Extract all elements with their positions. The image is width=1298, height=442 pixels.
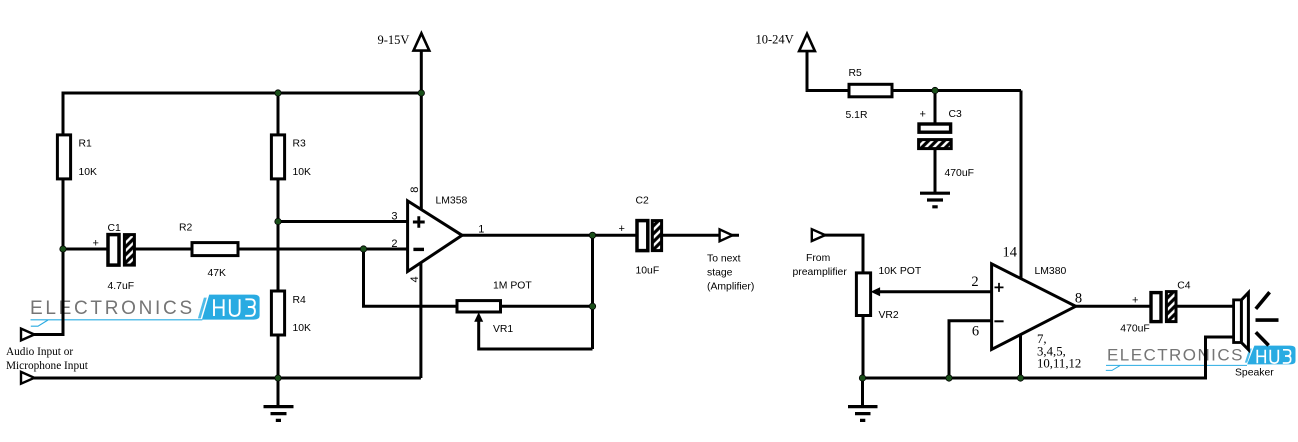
svg-text:2: 2 bbox=[971, 274, 978, 290]
svg-text:Audio Input or: Audio Input or bbox=[6, 346, 73, 358]
svg-text:+: + bbox=[1132, 294, 1138, 306]
svg-text:8: 8 bbox=[1075, 290, 1082, 306]
junction power rail left bbox=[418, 90, 424, 96]
wire pin 14 bbox=[1020, 91, 1023, 279]
op-amp U2 minus input mark bbox=[994, 320, 1003, 322]
capacitor C1 plate positive bbox=[108, 235, 119, 266]
wire C2 to arrow bbox=[661, 234, 740, 237]
wire wiper VR2 to pin2 bbox=[879, 290, 992, 293]
svg-text:Microphone Input: Microphone Input bbox=[6, 360, 89, 372]
junction feedback pin2 bbox=[360, 246, 366, 252]
op-amp U1 LM358 triangle bbox=[408, 201, 463, 272]
logo2 underline bbox=[1106, 364, 1247, 366]
logo underline notch bbox=[31, 320, 48, 326]
power arrow 9-15V bbox=[414, 33, 430, 50]
wire bottom rail left bbox=[34, 377, 421, 380]
wire C1 to pin2 bbox=[133, 248, 408, 251]
wire power stem / pin 8 bbox=[420, 49, 423, 210]
WIRES-RIGHT bbox=[807, 50, 1234, 406]
logo hub box bbox=[202, 295, 260, 320]
capacitor C4 plate positive bbox=[1151, 293, 1161, 322]
svg-text:From: From bbox=[806, 253, 830, 264]
junction VR2 ground bbox=[859, 375, 865, 381]
svg-text:preamplifier: preamplifier bbox=[793, 267, 848, 278]
svg-text:+: + bbox=[93, 237, 99, 249]
svg-text:LM358: LM358 bbox=[436, 196, 468, 207]
svg-text:R1: R1 bbox=[79, 139, 93, 150]
wire ground stem R4 bbox=[277, 378, 280, 406]
svg-text:VR1: VR1 bbox=[493, 324, 513, 335]
op-amp U1 plus input mark bbox=[413, 216, 425, 227]
ground symbol under C3 bbox=[920, 193, 950, 207]
wire left rail bbox=[62, 92, 65, 335]
capacitor C3 plate negative bbox=[919, 140, 952, 149]
svg-text:(Amplifier): (Amplifier) bbox=[707, 281, 754, 292]
svg-text:+: + bbox=[619, 223, 625, 235]
potentiometer VR1 body bbox=[457, 301, 501, 312]
junction pin6 rail bbox=[946, 375, 952, 381]
svg-text:R3: R3 bbox=[293, 139, 307, 150]
wire pin 3 bbox=[278, 220, 408, 223]
svg-text:4: 4 bbox=[409, 276, 421, 282]
power arrow 10-24V bbox=[799, 34, 815, 51]
wire output LM358 bbox=[462, 234, 637, 237]
wire C1 left segment bbox=[63, 248, 110, 251]
svg-text:R2: R2 bbox=[179, 223, 193, 234]
potentiometer VR1 wiper arrow bbox=[474, 312, 483, 322]
junction pin3 divider bbox=[275, 218, 281, 224]
svg-text:47K: 47K bbox=[208, 268, 227, 279]
ground symbol under R4 bbox=[264, 407, 294, 421]
speaker LS1 driver bbox=[1234, 300, 1242, 343]
svg-text:8: 8 bbox=[409, 187, 421, 193]
wire bottom rail right bbox=[863, 377, 1206, 380]
wire pin 4 bbox=[419, 263, 422, 378]
capacitor C2 plate positive bbox=[637, 221, 648, 251]
wire speaker bottom bbox=[1206, 337, 1234, 380]
svg-text:R4: R4 bbox=[293, 295, 307, 306]
resistor R1 bbox=[57, 135, 70, 179]
connector audio input arrow bbox=[21, 329, 34, 341]
svg-text:To next: To next bbox=[707, 253, 741, 264]
capacitor C1 plate negative bbox=[124, 235, 134, 266]
wire output LM380 bbox=[1076, 305, 1151, 308]
svg-text:C1: C1 bbox=[108, 223, 122, 234]
svg-text:Speaker: Speaker bbox=[1235, 367, 1274, 378]
wire LM380 ground pins bbox=[1019, 335, 1022, 379]
logo underline bbox=[31, 319, 203, 321]
capacitor C4 plate negative bbox=[1166, 292, 1176, 322]
svg-text:R5: R5 bbox=[849, 68, 863, 79]
wire C4 to speaker bbox=[1176, 305, 1234, 308]
svg-text:ELECTRONICS: ELECTRONICS bbox=[1107, 345, 1244, 364]
wire C3 top bbox=[934, 91, 937, 125]
wire from preamp to VR2 bbox=[824, 235, 863, 378]
svg-text:C3: C3 bbox=[949, 109, 963, 120]
logo hub text HU3 bbox=[214, 299, 255, 316]
junction pot feedback bbox=[589, 303, 595, 309]
wire feedback vertical bbox=[591, 235, 594, 349]
potentiometer VR2 body bbox=[856, 273, 870, 316]
svg-text:5.1R: 5.1R bbox=[846, 110, 868, 121]
junction R1 C1 bbox=[60, 246, 66, 252]
svg-text:10K: 10K bbox=[293, 167, 312, 178]
speaker sound waves bbox=[1256, 292, 1279, 345]
potentiometer VR2 wiper arrow bbox=[871, 287, 881, 296]
svg-text:C2: C2 bbox=[636, 196, 650, 207]
wire input1 to rail bbox=[34, 333, 65, 336]
svg-text:10uF: 10uF bbox=[636, 266, 660, 277]
logo2 hub text HU3 bbox=[1257, 350, 1290, 364]
logo2 underline notch bbox=[1106, 366, 1120, 371]
svg-text:14: 14 bbox=[1003, 245, 1018, 261]
junction R4 ground bbox=[275, 375, 281, 381]
svg-text:470uF: 470uF bbox=[945, 168, 974, 179]
connector from preamplifier arrow bbox=[812, 229, 825, 241]
op-amp U2 plus input mark bbox=[995, 283, 1004, 292]
svg-text:3: 3 bbox=[391, 210, 397, 222]
wire pin 6 bbox=[949, 321, 992, 378]
svg-text:stage: stage bbox=[707, 268, 733, 279]
svg-text:LM380: LM380 bbox=[1035, 266, 1067, 277]
svg-text:VR2: VR2 bbox=[879, 310, 899, 321]
svg-text:10K: 10K bbox=[79, 167, 98, 178]
wire power rail right bbox=[807, 50, 1021, 91]
svg-text:1M POT: 1M POT bbox=[493, 281, 532, 292]
junction R3 top bbox=[275, 90, 281, 96]
op-amp U1 minus input mark bbox=[413, 248, 424, 251]
wire ground stem VR2 bbox=[861, 378, 864, 406]
junction output C2 bbox=[589, 232, 595, 238]
wire wiper VR1 bbox=[479, 321, 593, 350]
wire R3-R4 vertical bbox=[277, 93, 280, 378]
capacitor C3 plate positive bbox=[919, 124, 951, 132]
svg-text:1: 1 bbox=[478, 224, 484, 236]
op-amp U2 LM380 triangle bbox=[992, 264, 1076, 350]
svg-text:+: + bbox=[920, 108, 926, 120]
WIRES-LEFT bbox=[34, 49, 740, 406]
resistor R4 bbox=[271, 291, 284, 335]
connector mic input arrow bbox=[21, 372, 34, 384]
svg-text:6: 6 bbox=[972, 324, 979, 340]
wire feedback to pot bbox=[364, 249, 593, 306]
junction LM380 ground rail bbox=[1017, 375, 1023, 381]
svg-text:10K: 10K bbox=[293, 323, 312, 334]
logo2 hub box bbox=[1247, 346, 1295, 365]
svg-text:ELECTRONICS: ELECTRONICS bbox=[30, 298, 195, 319]
capacitor C2 plate negative bbox=[652, 221, 661, 251]
resistor R2 bbox=[192, 243, 238, 256]
connector to next stage arrow bbox=[720, 229, 733, 241]
svg-text:10K POT: 10K POT bbox=[879, 266, 922, 277]
svg-text:10-24V: 10-24V bbox=[756, 32, 794, 46]
svg-text:10,11,12: 10,11,12 bbox=[1037, 357, 1081, 371]
wire C3 bottom to ground bbox=[934, 148, 937, 193]
svg-text:470uF: 470uF bbox=[1120, 323, 1149, 334]
resistor R5 bbox=[849, 84, 892, 97]
ground symbol under VR2 bbox=[848, 407, 878, 421]
svg-text:2: 2 bbox=[391, 238, 397, 250]
logo hub bolt bbox=[198, 298, 207, 319]
junction R5 C3 bbox=[932, 87, 938, 93]
wire top rail left bbox=[63, 92, 421, 95]
svg-text:C4: C4 bbox=[1177, 280, 1191, 291]
svg-text:9-15V: 9-15V bbox=[378, 33, 410, 47]
speaker LS1 cone bbox=[1241, 293, 1248, 350]
svg-text:4.7uF: 4.7uF bbox=[108, 281, 135, 292]
logo2 hub bolt bbox=[1245, 349, 1252, 363]
resistor R3 bbox=[271, 135, 284, 179]
